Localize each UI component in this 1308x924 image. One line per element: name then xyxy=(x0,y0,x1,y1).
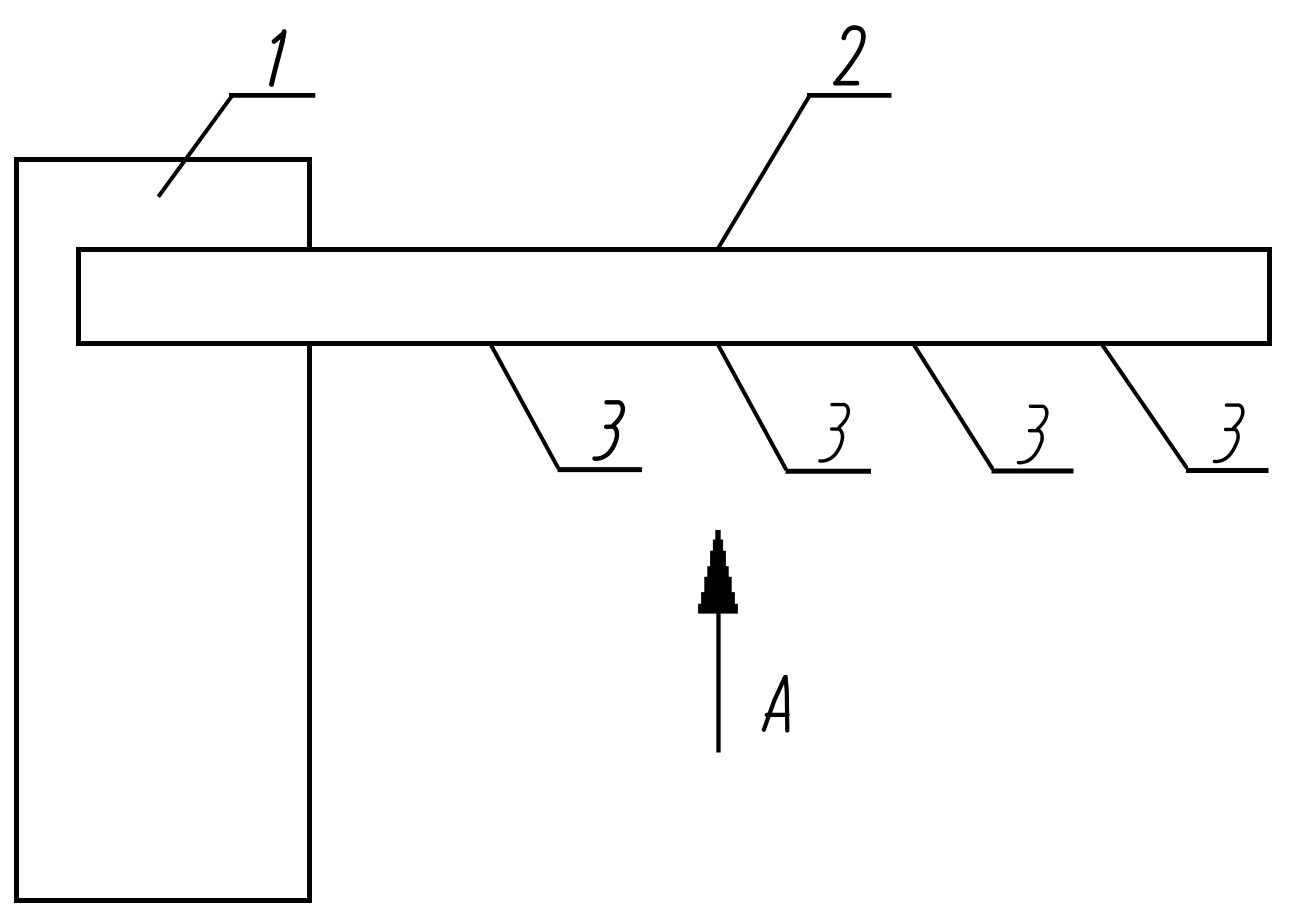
leader line for label 3 (third, diagonal) xyxy=(914,345,993,469)
leader line for label 3 (first, diagonal) xyxy=(491,345,559,469)
label digit 2 xyxy=(835,28,863,84)
leader line for label 1 (diagonal) xyxy=(158,97,231,197)
label digit 3 (first) xyxy=(595,402,623,458)
leader line for label 3 (second, horizontal tail) xyxy=(786,469,872,474)
leader line for label 2 (horizontal tail) xyxy=(807,93,892,98)
view arrow A head (stepped triangle) xyxy=(698,530,738,614)
leader line for label 3 (first, horizontal tail) xyxy=(558,467,643,472)
leader line for label 3 (third, horizontal tail) xyxy=(992,469,1074,474)
label digit 3 (second) xyxy=(820,405,848,461)
leader line for label 3 (second, diagonal) xyxy=(718,345,786,470)
leader line for label 1 (horizontal tail) xyxy=(229,93,315,98)
leader line for label 3 (fourth, horizontal tail) xyxy=(1186,468,1269,473)
label digit 3 (fourth) xyxy=(1215,405,1243,461)
label letter A xyxy=(764,677,788,731)
leader line for label 3 (fourth, diagonal) xyxy=(1102,345,1187,468)
view arrow A shaft xyxy=(716,612,720,753)
label digit 1 xyxy=(272,32,285,85)
label digit 3 (third) xyxy=(1019,406,1047,462)
leader line for label 2 (diagonal) xyxy=(718,96,810,249)
part 1 vertical post rectangle xyxy=(17,160,310,901)
part 2 horizontal bar rectangle xyxy=(79,250,1270,344)
